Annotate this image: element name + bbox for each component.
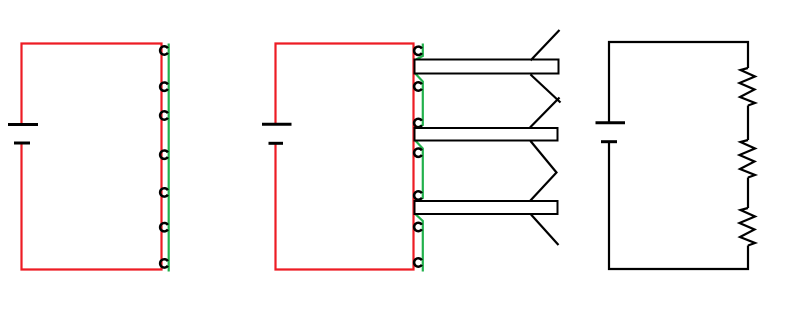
node terminal 3 (circuit 1) xyxy=(160,111,168,119)
wire: chevron link busbar 1 to busbar 2 (upper stroke) xyxy=(531,75,561,103)
node terminal 1 (circuit 1) xyxy=(160,46,168,54)
busbar 3 (circuit 2) xyxy=(415,201,558,214)
resistor R3 xyxy=(740,208,756,246)
battery B3 short plate (-) xyxy=(601,140,617,143)
busbar 2 (circuit 2) xyxy=(415,128,558,141)
green bus wire: circuit 1 xyxy=(168,44,170,272)
node terminal 6 (circuit 1) xyxy=(160,223,168,231)
wire: top diagonal lead off busbar 1 xyxy=(531,30,560,61)
busbar 1 (circuit 2) xyxy=(415,60,559,74)
node terminal 1 (circuit 2) xyxy=(414,47,422,55)
battery B1 long plate (+) xyxy=(8,123,38,126)
node terminal 7 (circuit 1) xyxy=(160,259,168,267)
node terminal 2 (circuit 1) xyxy=(160,83,168,91)
wire: circuit 2 red loop xyxy=(276,44,414,270)
green bus wire: circuit 2 (jogs at each busbar) xyxy=(415,44,423,272)
node terminal 4 (circuit 2) xyxy=(414,149,422,157)
battery B2 short plate (-) xyxy=(269,142,284,145)
wire: circuit 1 red loop (top, right, bottom edges) xyxy=(22,44,162,270)
node terminal 5 (circuit 2) xyxy=(414,191,422,199)
wire: chevron link busbar 2 to busbar 3 xyxy=(530,141,557,201)
node terminal 6 (circuit 2) xyxy=(414,223,422,231)
resistor R2 xyxy=(740,140,756,178)
wire: circuit 3 black loop xyxy=(609,42,748,269)
battery B3 long plate (+) xyxy=(596,121,626,124)
battery B1 short plate (-) xyxy=(14,142,30,145)
node terminal 2 (circuit 2) xyxy=(414,82,422,90)
node terminal 7 (circuit 2) xyxy=(414,258,422,266)
node terminal 3 (circuit 2) xyxy=(414,119,422,127)
wire: bottom diagonal lead off busbar 3 xyxy=(531,215,559,246)
wire: chevron link busbar 1 to busbar 2 (lower stroke) xyxy=(530,98,560,128)
resistor R1 xyxy=(740,68,756,106)
battery B2 long plate (+) xyxy=(262,123,292,126)
node terminal 5 (circuit 1) xyxy=(160,188,168,196)
node terminal 4 (circuit 1) xyxy=(160,151,168,159)
